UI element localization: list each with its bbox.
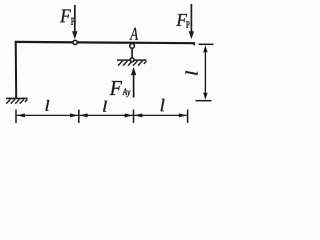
support A: lower pin circle [130,58,134,62]
left support hatching [6,99,27,103]
bottom dimension: tick 1 [15,110,17,124]
reaction FAy: arrow shaft (upward) [133,74,135,98]
right dimension: bottom tick [196,100,212,102]
bottom dimension: line span 3 [134,114,188,116]
beam (top horizontal member) [15,42,195,43]
bottom dimension: line span 1 [16,114,79,116]
force FP right: label F [176,14,187,26]
bottom dimension: tick 3 [133,110,135,124]
right dimension: top tick [199,43,214,45]
right dimension: label l (rotated) [186,71,198,75]
force FP right: arrowhead [189,31,194,39]
force FP right: subscript P [186,21,189,28]
bottom dimension: label l span1 [45,100,49,111]
support A: hinge circle below beam [130,44,135,49]
bottom dimension: tick 2 [78,110,80,124]
left fixed support ground line [6,97,28,99]
bottom dimension: line span 2 [79,114,134,116]
bottom dimension: label l span2 [103,101,107,112]
beam right-end stub [193,43,195,46]
support A: link bar [131,48,133,58]
reaction FAy: subscript Ay [122,88,130,97]
force FP right: arrow shaft [190,4,192,33]
left column [15,41,18,98]
reaction FAy: label F [110,81,122,95]
force FP left: subscript P [71,18,75,25]
bottom dimension: tick 4 [187,110,189,124]
right dimension: vertical line [204,50,206,95]
reaction FAy: arrowhead [131,67,136,75]
right dimension: arrowhead down [203,93,207,100]
force FP left: label F [60,9,71,22]
support A: hatching [118,61,146,66]
bottom dimension: label l span3 [161,99,165,112]
right dimension: arrowhead up [203,45,207,52]
bottom dimension arrowheads [17,113,187,117]
node A label [129,28,138,40]
hinge circle on beam [73,40,77,44]
force FP left: arrowhead [72,31,77,39]
force FP left: arrow shaft [74,5,76,33]
support A: ground line [117,59,147,61]
